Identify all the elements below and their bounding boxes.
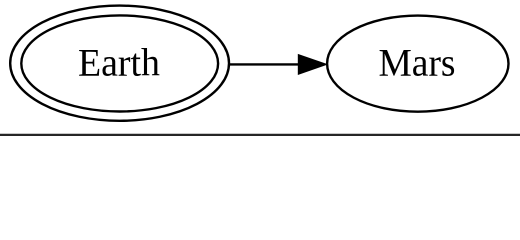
svg-text:Mars: Mars [379,40,456,84]
svg-text:Earth: Earth [78,40,160,84]
